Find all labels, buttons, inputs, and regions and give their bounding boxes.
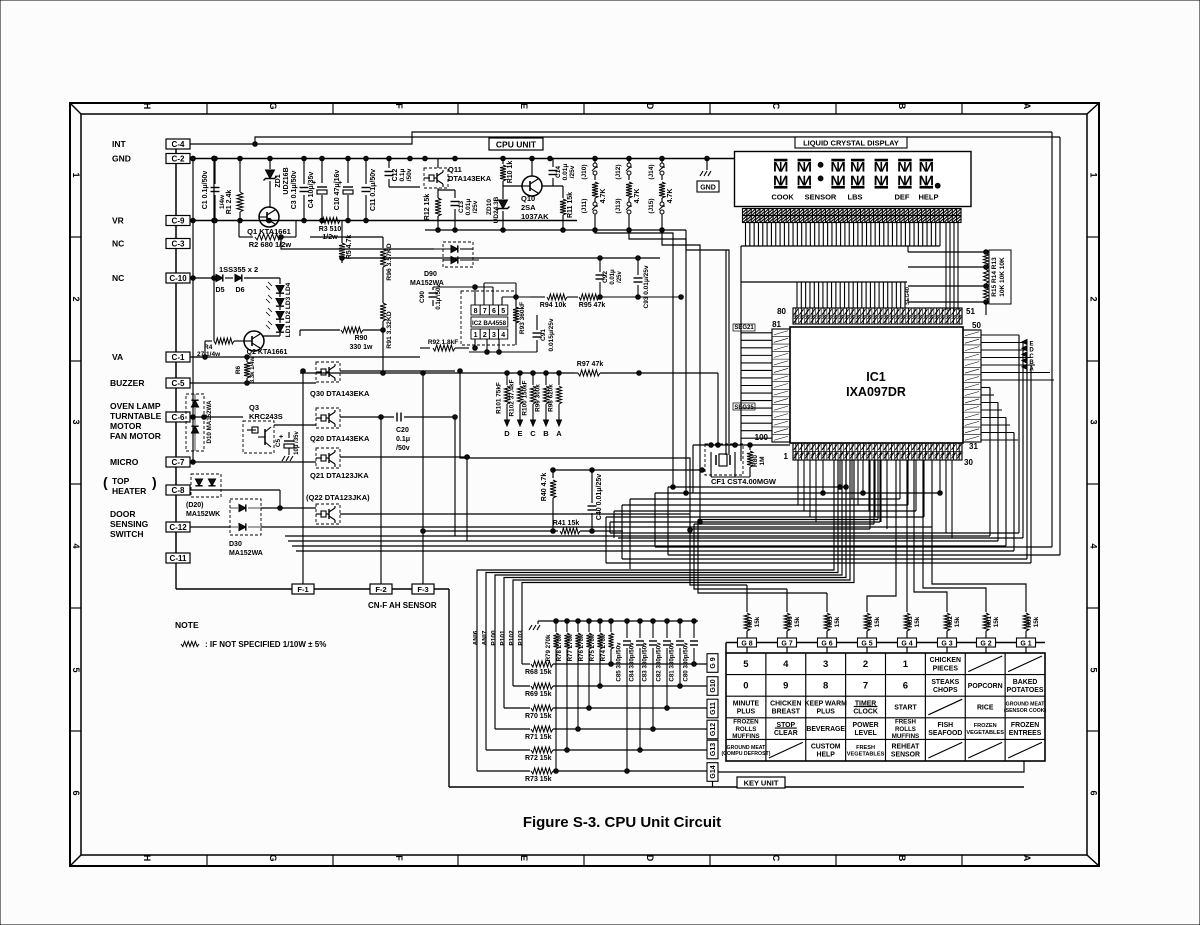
svg-text:C11 0.1μ/50v: C11 0.1μ/50v	[370, 169, 377, 211]
capacitor C40	[588, 468, 604, 534]
wire G3 stub	[946, 647, 948, 653]
svg-text:E: E	[517, 429, 522, 438]
svg-text:G: G	[268, 102, 278, 109]
wire J bus to IC1 left	[595, 230, 729, 524]
svg-text:1M: 1M	[759, 456, 766, 465]
svg-text:D6: D6	[236, 287, 245, 294]
svg-text:R4: R4	[204, 344, 213, 351]
svg-text:Q2 KTA1661: Q2 KTA1661	[247, 349, 288, 356]
capacitor C14	[549, 159, 577, 187]
connector C-9	[166, 216, 190, 226]
svg-text:BUZZER: BUZZER	[110, 378, 144, 388]
svg-text:PIECES: PIECES	[933, 665, 959, 672]
resistor R10	[500, 159, 514, 191]
svg-text:C: C	[1029, 354, 1034, 360]
wire IC2 top	[433, 283, 537, 315]
svg-text:MINUTE: MINUTE	[733, 700, 760, 707]
LCD pin band	[743, 209, 962, 223]
transistor Q20	[274, 408, 370, 443]
wire right bus	[1052, 132, 1060, 555]
svg-text:R1 2.4k: R1 2.4k	[226, 190, 233, 215]
wire G8 stub	[746, 647, 748, 653]
svg-text:MA152WK: MA152WK	[186, 511, 220, 518]
svg-text:8: 8	[823, 681, 828, 692]
connector G9	[707, 654, 718, 673]
svg-text:R5 4.7k: R5 4.7k	[346, 235, 353, 260]
svg-text:0.01μ: 0.01μ	[465, 199, 472, 216]
svg-text:C3 0.1μ/50v: C3 0.1μ/50v	[291, 171, 298, 210]
resistor R1	[219, 159, 243, 221]
capacitor C85-C80 330p	[616, 619, 698, 774]
svg-text:4.7K: 4.7K	[634, 189, 641, 204]
resistor R12	[424, 188, 441, 230]
svg-text:R63: R63	[907, 616, 914, 628]
svg-text:G 2: G 2	[980, 640, 991, 647]
svg-text:4: 4	[1089, 543, 1099, 548]
capacitor C10	[334, 159, 353, 221]
svg-text:(: (	[103, 474, 108, 490]
svg-text:C: C	[530, 429, 536, 438]
svg-text:R40 4.7k: R40 4.7k	[541, 473, 548, 502]
svg-text:R80: R80	[752, 455, 759, 467]
svg-text:COOK: COOK	[771, 193, 794, 202]
svg-text:6: 6	[1089, 790, 1099, 795]
jumper (J14) (J15) 4.7K	[648, 159, 674, 231]
resistor R40	[541, 468, 556, 534]
svg-text:CN-F AH SENSOR: CN-F AH SENSOR	[368, 601, 437, 610]
wire mid rail 258	[340, 246, 660, 260]
svg-text:LD1 LD2 LD3 LD4: LD1 LD2 LD3 LD4	[285, 282, 292, 337]
svg-text:Q10: Q10	[521, 194, 535, 203]
svg-text:R91 3.32KD: R91 3.32KD	[386, 311, 393, 348]
wire G6 stub	[826, 647, 828, 653]
svg-text:(J10): (J10)	[581, 164, 588, 179]
op-amp IC2 BA4558	[461, 291, 516, 345]
svg-text:R41 15k: R41 15k	[553, 520, 580, 527]
transistor Q10	[503, 159, 563, 222]
diode D10 MA152WA	[186, 394, 213, 451]
svg-text:D: D	[504, 429, 510, 438]
wire top loop 2	[255, 137, 1060, 144]
resistor R66 15k	[784, 600, 801, 638]
svg-text:A: A	[1029, 366, 1034, 372]
svg-text:A: A	[556, 429, 562, 438]
svg-text:R100 150kF: R100 150kF	[522, 380, 529, 415]
svg-text:4: 4	[501, 332, 505, 339]
wire G rail	[726, 643, 1045, 654]
svg-text:KRC243S: KRC243S	[249, 412, 283, 421]
svg-text:5: 5	[71, 667, 81, 672]
transistor Q3 KRC243S	[243, 403, 283, 453]
svg-text:/50v: /50v	[406, 168, 413, 181]
svg-text:100: 100	[755, 433, 769, 442]
wire GND rail	[190, 156, 742, 161]
svg-text:C84 330p/50v: C84 330p/50v	[629, 642, 636, 682]
svg-text:IC1: IC1	[866, 370, 886, 384]
IC1 bottom pin band	[793, 443, 962, 460]
svg-text:/50v: /50v	[396, 445, 410, 452]
key table cells	[721, 656, 1046, 759]
svg-text:4: 4	[71, 543, 81, 548]
wire R40 top	[553, 468, 705, 473]
wire VR rail	[190, 218, 577, 223]
svg-text:CF1 CST4.00MGW: CF1 CST4.00MGW	[711, 477, 777, 486]
svg-text:MUFFINS: MUFFINS	[732, 733, 760, 740]
svg-text:R77 270k: R77 270k	[567, 634, 574, 661]
svg-text:2: 2	[483, 332, 487, 339]
svg-text:START: START	[894, 704, 917, 711]
svg-text:C-8: C-8	[172, 486, 185, 495]
wire G resistor feeds	[747, 460, 1026, 600]
svg-text:R64: R64	[867, 616, 874, 628]
svg-text:HELP: HELP	[816, 752, 835, 759]
wire left vertical 214	[212, 156, 217, 341]
svg-text:0.1μ: 0.1μ	[399, 168, 406, 181]
svg-text:C12: C12	[392, 168, 399, 181]
resistor R62 15k	[944, 600, 961, 638]
svg-text:UDZ16B: UDZ16B	[283, 167, 290, 194]
svg-text:R75 270k: R75 270k	[589, 634, 596, 661]
diode D20 MA152WK	[186, 474, 221, 518]
svg-text:R97 47k: R97 47k	[577, 361, 604, 368]
svg-text:NC: NC	[112, 273, 124, 283]
svg-text:1SS355 x 2: 1SS355 x 2	[219, 265, 258, 274]
svg-text:PLUS: PLUS	[816, 708, 835, 715]
svg-text:C10 47μ/16v: C10 47μ/16v	[334, 170, 341, 211]
wire CF1 nets	[693, 443, 790, 493]
svg-text:FISH: FISH	[937, 722, 953, 729]
svg-text:C-10: C-10	[169, 274, 187, 283]
connector C-11	[166, 553, 190, 563]
svg-text:C: C	[771, 855, 781, 862]
svg-text:2: 2	[863, 659, 868, 670]
connector G12	[707, 720, 718, 739]
svg-text:15k: 15k	[754, 616, 761, 627]
svg-text:C92: C92	[602, 271, 609, 283]
svg-text:ROLLS: ROLLS	[735, 726, 756, 733]
resistor R41	[421, 520, 623, 534]
svg-text:C14: C14	[555, 166, 562, 178]
svg-text:B: B	[897, 103, 907, 110]
connector C-6	[166, 412, 190, 422]
svg-text:LEVEL: LEVEL	[854, 730, 876, 737]
zener ZD1	[264, 159, 291, 209]
svg-text:SENSOR: SENSOR	[891, 752, 920, 759]
svg-text:SWITCH: SWITCH	[110, 529, 144, 539]
connector C-3	[166, 239, 190, 249]
left signal labels	[103, 139, 162, 539]
svg-text:IXA097DR: IXA097DR	[846, 385, 906, 399]
wire G4 stub	[906, 647, 908, 653]
connector G1	[1017, 638, 1036, 647]
svg-text:6: 6	[492, 308, 496, 315]
capacitor C93	[634, 258, 651, 309]
svg-text:ENTREES: ENTREES	[1009, 730, 1042, 737]
wire R94 R95 row	[530, 294, 683, 309]
svg-text:CPU UNIT: CPU UNIT	[496, 140, 537, 150]
svg-text:R15 R14 R13: R15 R14 R13	[991, 257, 998, 297]
svg-text:Q21 DTA123JKA: Q21 DTA123JKA	[310, 471, 369, 480]
svg-text:R99 300k: R99 300k	[535, 384, 542, 412]
svg-text:F-2: F-2	[375, 585, 386, 594]
svg-text:3: 3	[71, 419, 81, 424]
svg-text:ANI6: ANI6	[473, 630, 480, 645]
connector G5	[858, 638, 877, 647]
svg-text:TOP: TOP	[112, 476, 130, 486]
wire R13 feeds	[908, 246, 986, 302]
svg-text:OVEN LAMP: OVEN LAMP	[110, 401, 161, 411]
svg-text:5: 5	[743, 659, 749, 670]
svg-text:7: 7	[863, 681, 868, 692]
svg-text:Q30 DTA143EKA: Q30 DTA143EKA	[310, 389, 370, 398]
zener ZD10	[486, 190, 510, 230]
svg-text:30: 30	[964, 458, 973, 467]
key unit table	[726, 653, 1045, 761]
IC1 right pin band	[963, 330, 981, 442]
svg-text:1037AK: 1037AK	[521, 212, 549, 221]
resistor R2	[239, 221, 434, 250]
svg-text:D5: D5	[216, 287, 225, 294]
svg-text:C-6: C-6	[172, 413, 185, 422]
svg-text:F: F	[394, 103, 404, 109]
svg-text:G14: G14	[710, 765, 717, 778]
svg-text:15k: 15k	[914, 616, 921, 627]
svg-text:10K 10K 10K: 10K 10K 10K	[999, 257, 1006, 297]
wire G7 stub	[786, 647, 788, 653]
svg-text:FROZEN: FROZEN	[974, 723, 997, 729]
svg-text:Figure S-3. CPU Unit Circuit: Figure S-3. CPU Unit Circuit	[523, 814, 721, 831]
svg-text:1: 1	[1089, 172, 1099, 177]
svg-text:(J12): (J12)	[615, 164, 622, 179]
connector G3	[938, 638, 957, 647]
svg-text:: IF NOT SPECIFIED 1/10W ± 5%: : IF NOT SPECIFIED 1/10W ± 5%	[205, 640, 326, 649]
svg-text:81: 81	[772, 320, 781, 329]
svg-text:7: 7	[483, 308, 487, 315]
svg-text:0.01μ: 0.01μ	[610, 269, 616, 285]
connector C-5	[166, 378, 190, 388]
svg-text:4.7K: 4.7K	[667, 189, 674, 204]
svg-text:G 5: G 5	[861, 640, 872, 647]
svg-text:POTATOES: POTATOES	[1007, 687, 1044, 694]
svg-text:(J14): (J14)	[648, 164, 655, 179]
svg-text:DEF: DEF	[895, 193, 910, 202]
svg-text:B: B	[1029, 360, 1034, 366]
wire LCD right bundle	[946, 223, 958, 311]
svg-text:HEATER: HEATER	[112, 486, 146, 496]
LCD display box	[735, 152, 972, 207]
svg-text:1: 1	[784, 452, 789, 461]
transistor Q1	[247, 207, 291, 236]
connector F-3	[412, 584, 434, 594]
svg-text:BREAST: BREAST	[772, 708, 801, 715]
svg-text:15k: 15k	[1033, 616, 1040, 627]
svg-text:R102 37.4kF: R102 37.4kF	[509, 379, 516, 416]
svg-text:R76 270k: R76 270k	[578, 634, 585, 661]
wire ANI P10x staircase	[473, 460, 855, 771]
svg-text:FAN MOTOR: FAN MOTOR	[110, 431, 161, 441]
svg-text:ROLLS: ROLLS	[895, 726, 916, 733]
svg-text:UD24.3B: UD24.3B	[493, 196, 500, 223]
svg-text:R2 680 1/2w: R2 680 1/2w	[249, 240, 292, 249]
svg-text:R71 15k: R71 15k	[525, 734, 552, 741]
svg-text:/25v: /25v	[569, 165, 576, 178]
svg-text:Q11: Q11	[448, 165, 462, 174]
svg-text:C-9: C-9	[172, 217, 185, 226]
svg-text:R90: R90	[355, 335, 368, 342]
svg-text:(J13): (J13)	[615, 198, 622, 213]
svg-text:R3 510: R3 510	[319, 226, 342, 233]
svg-text:SEAFOOD: SEAFOOD	[928, 730, 962, 737]
svg-text:G10: G10	[710, 679, 717, 692]
crystal CF1 CST4.00MGW	[705, 444, 777, 486]
svg-text:G 9: G 9	[710, 657, 717, 668]
svg-text:2SA: 2SA	[521, 203, 536, 212]
wire IC1 right drops	[990, 335, 1031, 563]
svg-text:C4 10μ/35v: C4 10μ/35v	[308, 172, 315, 209]
svg-text:MA152WA: MA152WA	[229, 550, 263, 557]
svg-text:E: E	[519, 103, 529, 109]
svg-text:POWER: POWER	[853, 722, 879, 729]
svg-text:GND: GND	[700, 185, 716, 192]
svg-text:5: 5	[1089, 667, 1099, 672]
svg-text:G 6: G 6	[821, 640, 832, 647]
svg-text:C-2: C-2	[172, 155, 185, 164]
svg-text:C-3: C-3	[172, 240, 185, 249]
wire IC1 right pins	[981, 335, 1054, 440]
svg-text:PLUS: PLUS	[737, 708, 756, 715]
svg-text:MA152WA: MA152WA	[410, 280, 444, 287]
svg-text:R95 47k: R95 47k	[579, 302, 606, 309]
svg-text:NOTE: NOTE	[175, 620, 199, 630]
svg-text:(J11): (J11)	[581, 199, 588, 214]
svg-text:R68 15k: R68 15k	[525, 669, 552, 676]
svg-text:(Q22 DTA123JKA): (Q22 DTA123JKA)	[306, 493, 370, 502]
svg-text:R65: R65	[827, 616, 834, 628]
svg-text:D90: D90	[424, 271, 437, 278]
svg-text:VEGETABLES: VEGETABLES	[966, 730, 1004, 736]
capacitor C91	[533, 315, 556, 352]
resistor R6	[235, 356, 256, 383]
diode D90 MA152WA	[410, 242, 479, 287]
svg-text:BEVERAGE: BEVERAGE	[806, 726, 845, 733]
svg-text:DTA143EKA: DTA143EKA	[448, 174, 492, 183]
resistor R97	[575, 361, 720, 447]
capacitor C1	[202, 159, 220, 221]
wire C-12 row	[190, 526, 932, 528]
svg-text:5: 5	[501, 308, 505, 315]
svg-text:G: G	[268, 854, 278, 861]
svg-text:C: C	[771, 103, 781, 110]
connector chain wire	[175, 149, 177, 589]
svg-text:FROZEN: FROZEN	[1011, 722, 1039, 729]
svg-text:G12: G12	[710, 723, 717, 736]
capacitor C12	[385, 159, 421, 188]
wire F verticals	[301, 369, 423, 584]
wire Q22 input	[260, 507, 262, 509]
svg-text:C-5: C-5	[172, 379, 185, 388]
connector C-7	[166, 457, 190, 467]
svg-text:R101 75kF: R101 75kF	[496, 382, 503, 414]
border frame	[70, 102, 1099, 866]
IC1 IXA097DR	[790, 327, 963, 443]
capacitor C5	[275, 430, 300, 461]
svg-text:): )	[152, 474, 157, 490]
svg-text:A: A	[1022, 103, 1032, 110]
wire ladder top rail	[529, 621, 698, 630]
svg-text:B: B	[897, 855, 907, 862]
jumper (J12) (J13) 4.7K	[615, 159, 641, 231]
resistor R92	[420, 339, 469, 351]
connector G10	[707, 677, 718, 696]
svg-text:FROZEN: FROZEN	[733, 718, 759, 725]
connector C-10	[166, 273, 190, 283]
svg-text:LIQUID CRYSTAL DISPLAY: LIQUID CRYSTAL DISPLAY	[803, 139, 899, 148]
svg-text:SEG21: SEG21	[734, 325, 754, 331]
svg-text:ZD10: ZD10	[486, 199, 493, 215]
svg-text:G11: G11	[710, 702, 717, 715]
resistor R64 15k	[864, 600, 881, 638]
svg-text:IC2 BA4558: IC2 BA4558	[472, 320, 507, 327]
connector G6	[818, 638, 837, 647]
svg-text:E: E	[519, 855, 529, 861]
wire bottom rail	[176, 589, 1024, 787]
svg-text:(D20): (D20)	[186, 502, 204, 509]
resistor ladder R101 R102 R100 R99 R98	[496, 373, 563, 438]
capacitor C4	[308, 159, 327, 221]
svg-text:G13: G13	[710, 743, 717, 756]
svg-text:DOOR: DOOR	[110, 509, 136, 519]
svg-text:P100: P100	[491, 630, 498, 646]
svg-text:MICRO: MICRO	[110, 457, 139, 467]
wire G2 stub	[985, 647, 987, 653]
CPU UNIT label	[489, 138, 543, 150]
svg-text:E: E	[1029, 342, 1033, 348]
svg-text:3: 3	[1089, 419, 1099, 424]
connector G7	[778, 638, 797, 647]
svg-text:CHICKEN: CHICKEN	[930, 657, 961, 664]
svg-text:CUSTOM: CUSTOM	[811, 744, 841, 751]
svg-text:R92 1.8kF: R92 1.8kF	[428, 339, 458, 346]
svg-text:CLOCK: CLOCK	[853, 708, 878, 715]
LED chain LD1-LD4	[266, 278, 292, 337]
svg-text:R96 3.57KD: R96 3.57KD	[386, 243, 393, 280]
svg-text:15k: 15k	[954, 616, 961, 627]
svg-text:4: 4	[783, 659, 789, 670]
connector G2	[977, 638, 996, 647]
svg-text:C20: C20	[396, 427, 409, 434]
resistor R67 15k	[744, 600, 761, 638]
svg-text:C5: C5	[275, 438, 282, 447]
svg-text:G 7: G 7	[781, 640, 792, 647]
IC1 pin numbers	[755, 307, 982, 467]
svg-text:F: F	[394, 855, 404, 861]
wire C-8 row	[190, 490, 316, 510]
transistor Q11	[424, 159, 492, 189]
svg-text:R60: R60	[1026, 616, 1033, 628]
connector G4	[898, 638, 917, 647]
svg-text:C-4: C-4	[172, 140, 185, 149]
KEY UNIT label	[737, 777, 785, 788]
svg-text:ZD1: ZD1	[275, 174, 282, 187]
svg-text:D: D	[645, 855, 655, 862]
resistor R4	[190, 338, 245, 358]
svg-text:ANI7: ANI7	[482, 630, 489, 645]
diode D5 D6 1SS355	[190, 265, 280, 294]
svg-text:1: 1	[903, 659, 909, 670]
svg-text:B: B	[543, 429, 549, 438]
connector F-2	[370, 584, 392, 594]
svg-text:/25v: /25v	[472, 200, 479, 213]
